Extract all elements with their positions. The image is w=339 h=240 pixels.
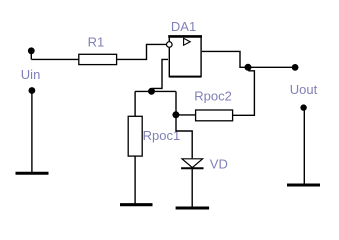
wire Uin top dot stub down xyxy=(30,52,32,59)
ground under Uin xyxy=(16,172,49,175)
wire op-amp output to output node xyxy=(202,51,248,67)
diode VD xyxy=(181,159,203,168)
wire Rpoc1 bottom to ground xyxy=(134,156,136,205)
svg-text:Uout: Uout xyxy=(290,82,318,97)
wire diode cathode to ground xyxy=(191,169,193,208)
node Uin top terminal dot xyxy=(28,47,35,54)
node Uin bottom terminal dot xyxy=(29,87,36,94)
svg-text:Uin: Uin xyxy=(21,67,41,82)
svg-text:Rpoc1: Rpoc1 xyxy=(143,128,181,143)
wire junction B down to diode VD anode xyxy=(176,115,192,158)
svg-text:Rpoc2: Rpoc2 xyxy=(194,88,232,103)
node output junction dot xyxy=(245,64,252,71)
ground under diode VD xyxy=(176,207,210,210)
node junction B dot xyxy=(172,111,179,118)
resistor Rpoc1 xyxy=(128,116,142,156)
wire junction A down to junction B xyxy=(175,91,177,115)
wire Uout bottom dot to ground xyxy=(303,109,305,185)
wire output node to Uout xyxy=(248,66,295,68)
wire Rpoc2 right up to output node xyxy=(233,71,255,116)
ground under Rpoc1 xyxy=(120,203,153,206)
svg-text:R1: R1 xyxy=(88,35,105,50)
node Uout top terminal dot xyxy=(292,64,299,71)
node Uout bottom terminal dot xyxy=(300,104,306,110)
wire R1 right to op-amp inverting input xyxy=(117,44,167,59)
resistor Rpoc2 xyxy=(196,110,233,121)
node junction A dot xyxy=(148,88,155,95)
wire Uin bottom dot to ground xyxy=(31,92,33,173)
svg-text:DA1: DA1 xyxy=(171,19,196,34)
ground under Uout xyxy=(287,184,320,187)
op-amp DA1 xyxy=(167,36,203,76)
wire junction B to Rpoc2 left xyxy=(176,114,196,116)
wire Uin to R1 left xyxy=(31,58,79,60)
svg-text:VD: VD xyxy=(210,156,228,171)
wire op-amp second input feedback xyxy=(152,59,168,88)
wire Rpoc1 top lead xyxy=(134,91,136,116)
wire through junction A horizontal xyxy=(135,90,176,92)
resistor R1 xyxy=(79,54,117,64)
